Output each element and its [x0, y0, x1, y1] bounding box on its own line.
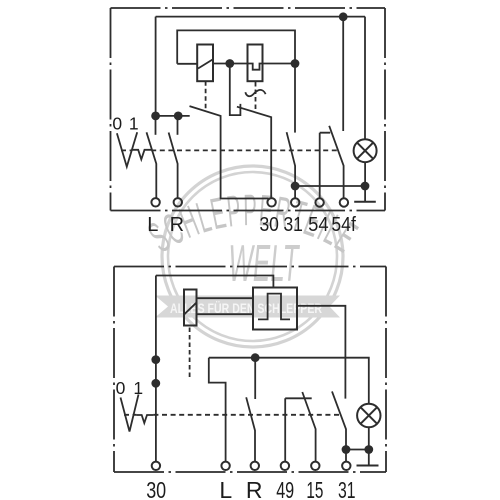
- thermal contact blade to terminal 30: [237, 107, 271, 198]
- hazard switch lever 0-1: [117, 132, 137, 166]
- terminal 31: [291, 198, 299, 206]
- wire: contact stub below node L: [155, 116, 157, 135]
- terminal 54f: [340, 198, 348, 206]
- wire: left drop from supply bus to L/R node: [155, 17, 157, 116]
- node R junction: [174, 112, 183, 121]
- wire: terminal 30 riser: [155, 276, 157, 462]
- thermal actuator squiggle: [245, 90, 265, 96]
- watermark logo ring: [162, 166, 343, 347]
- wire: thermal element to node 31-feed: [263, 63, 296, 65]
- node junction on supply bus: [339, 12, 348, 21]
- svg-text:30: 30: [146, 477, 166, 500]
- wire: 31 branch to lamp return: [295, 185, 365, 187]
- wire: fixed contact J-hook of thermal switch: [230, 64, 241, 116]
- node junction on lamp feed bus: [251, 353, 260, 362]
- relay coil K1: [197, 45, 213, 82]
- mechanical linkage dashed line: [124, 414, 339, 416]
- node junction at lamp return: [361, 182, 370, 191]
- svg-text:30: 30: [259, 214, 279, 236]
- relay contact blade K1 to terminal 30: [190, 106, 269, 198]
- wire: lamp to ground node: [368, 427, 370, 465]
- svg-text:54: 54: [308, 214, 329, 236]
- mechanical linkage dashed line: [121, 149, 339, 151]
- wire: drop to fixed contact of switch 31: [294, 64, 296, 133]
- switch blade to terminal R: [169, 133, 178, 199]
- wire: lamp feed bus: [209, 358, 369, 404]
- wire: coil feed loop: [177, 30, 295, 63]
- wire: fixed contact drop for R: [254, 358, 256, 399]
- hazard switch detent notch: [132, 150, 152, 160]
- switch blade to terminal R: [246, 397, 255, 461]
- node junction above terminal 31: [342, 445, 351, 454]
- svg-text:R: R: [170, 214, 184, 236]
- wire: coil K2 upper lead: [197, 297, 254, 299]
- relay enclosure boundary (dash-dot box): [111, 8, 386, 211]
- wire: coil K1 to thermal element: [213, 63, 248, 65]
- wire: contact stub below node R: [177, 116, 179, 135]
- wire: fixed contact drop from supply bus: [342, 17, 344, 131]
- terminal 49: [281, 462, 289, 470]
- switch blade to terminal L: [147, 132, 157, 198]
- terminal R: [251, 462, 259, 470]
- wire: terminal 54 riser with contact bar: [320, 133, 331, 199]
- wire: supply bus to indicator lamp: [364, 17, 366, 140]
- terminal R: [174, 198, 182, 206]
- wire: terminal L riser: [209, 358, 226, 462]
- svg-text:31: 31: [283, 214, 303, 236]
- svg-text:15: 15: [306, 477, 323, 500]
- hazard switch detent notch: [136, 415, 153, 423]
- svg-text:0: 0: [112, 114, 122, 134]
- indicator lamp H2: [357, 404, 380, 427]
- wire: lamp to ground node: [364, 162, 366, 202]
- svg-text:31: 31: [338, 477, 356, 500]
- pulse generator module: [253, 288, 297, 330]
- svg-text:49: 49: [276, 477, 294, 500]
- wire: pulse module output to fixed contact: [297, 306, 345, 399]
- wire: coil K2 lower lead: [197, 313, 254, 315]
- relay coil K2: [184, 290, 197, 326]
- svg-text:1: 1: [129, 114, 139, 134]
- svg-text:1: 1: [133, 378, 143, 398]
- switch blade to terminal 31: [332, 391, 346, 461]
- hazard switch lever 0-1: [121, 394, 139, 431]
- relay enclosure boundary (dash-dot box): [114, 267, 386, 473]
- switch blade to terminal 31: [287, 132, 296, 198]
- dashed actuator link of thermal element: [255, 82, 257, 112]
- ground chassis bar: [354, 201, 376, 203]
- node junction at lamp return: [364, 445, 373, 454]
- svg-text:WELT: WELT: [229, 235, 301, 293]
- thermal element (hot-wire): [248, 45, 263, 82]
- node junction on 31 branch: [291, 182, 300, 191]
- wire: top feed to pulse generator: [156, 276, 274, 288]
- wire: supply bus y=17: [156, 16, 365, 18]
- dashed actuator link of relay K2: [189, 328, 191, 380]
- wire: terminal 49 riser with contact bar: [285, 398, 312, 461]
- terminal 30: [267, 198, 275, 206]
- watermark ribbon banner: [155, 296, 340, 318]
- svg-text:0: 0: [116, 378, 126, 398]
- terminal 15: [311, 462, 319, 470]
- terminal 54: [315, 198, 323, 206]
- terminal L: [221, 462, 229, 470]
- switch blade to terminal 15: [302, 392, 315, 462]
- wire: 31 node to lamp return: [346, 449, 369, 451]
- svg-text:R: R: [246, 477, 263, 500]
- terminal L: [151, 198, 159, 206]
- node junction at loop right: [291, 59, 300, 68]
- node junction lower on 30 riser: [151, 379, 160, 388]
- terminal 30: [152, 462, 160, 470]
- svg-text:54f: 54f: [331, 214, 356, 236]
- svg-text:L: L: [147, 214, 158, 236]
- dashed actuator link of relay K1: [205, 81, 207, 111]
- switch blade to terminal 54f: [329, 126, 343, 198]
- node L junction: [151, 112, 160, 121]
- svg-text:L: L: [219, 477, 232, 500]
- node junction upper on 30 riser: [151, 355, 160, 364]
- node junction between coil and thermal element: [225, 59, 234, 68]
- wire: loop to relay coil K1: [177, 63, 197, 65]
- terminal 31: [342, 462, 350, 470]
- wire: node link L-R: [156, 115, 190, 117]
- indicator lamp H1: [354, 139, 377, 162]
- ground chassis bar: [357, 465, 379, 467]
